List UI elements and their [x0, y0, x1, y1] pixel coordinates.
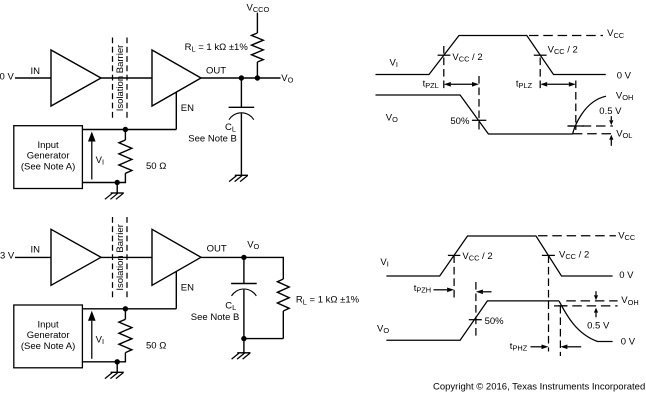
svg-text:(See Note A): (See Note A) — [21, 341, 75, 352]
svg-text:VCC​: VCC​ — [607, 28, 625, 40]
svg-text:0.5 V: 0.5 V — [587, 321, 610, 332]
wire generator bottom — [82, 182, 117, 184]
svg-text:VI​: VI​ — [96, 334, 104, 346]
svg-text:VO​: VO​ — [281, 73, 293, 85]
svg-text:RL​ = 1 kΩ ±1%: RL​ = 1 kΩ ±1% — [296, 295, 360, 307]
junction node EN/50ohm — [123, 127, 128, 132]
arrow tPZH left — [476, 290, 492, 295]
svg-text:EN: EN — [181, 283, 194, 294]
ground below generator — [105, 193, 124, 199]
junction ground node — [115, 359, 120, 364]
svg-text:50%: 50% — [485, 316, 505, 327]
wire EN pin — [175, 92, 177, 129]
svg-text:VI​: VI​ — [390, 58, 398, 70]
svg-text:tPZL​: tPZL​ — [423, 78, 439, 90]
buffer U1 input side — [51, 50, 101, 106]
svg-text:VCC​ / 2: VCC​ / 2 — [559, 249, 589, 261]
input generator box — [14, 126, 83, 189]
arrow tPLZ — [540, 82, 576, 87]
ground below CL — [229, 175, 248, 181]
tick VOL+0.5V crossing — [568, 125, 584, 127]
svg-text:50 Ω: 50 Ω — [146, 340, 166, 351]
svg-text:VCCO​: VCCO​ — [247, 2, 270, 14]
svg-text:VOH​: VOH​ — [616, 91, 633, 103]
capacitor CL — [229, 107, 255, 119]
svg-text:OUT: OUT — [206, 66, 226, 77]
wire 50ohm to ground node — [117, 173, 125, 182]
dashed marker tPHZ end — [559, 306, 561, 356]
dashed level VOH — [566, 300, 617, 302]
junction node CL — [239, 75, 244, 80]
arrow up 0.5V — [594, 308, 598, 318]
dashed level VOL+0.5V — [567, 125, 613, 127]
wire VCCO to RL — [256, 13, 258, 33]
svg-text:VCC​ / 2: VCC​ / 2 — [462, 251, 492, 263]
svg-text:See Note B: See Note B — [188, 133, 237, 144]
wire CL to bottom node — [243, 290, 245, 339]
wire input to buffer — [15, 77, 51, 79]
wire node to CL — [240, 78, 242, 107]
svg-text:RL​ = 1 kΩ ±1%: RL​ = 1 kΩ ±1% — [185, 42, 249, 54]
arrow down 0.5V — [594, 291, 598, 300]
wire generator to EN node — [82, 308, 176, 310]
waveform VI — [386, 236, 612, 276]
wire across barrier — [101, 77, 152, 79]
resistor 50 ohm — [119, 140, 132, 173]
svg-text:Generator: Generator — [27, 151, 70, 162]
svg-text:VOH​: VOH​ — [621, 295, 638, 307]
svg-text:0.5 V: 0.5 V — [599, 106, 622, 117]
wire bottom rail — [244, 338, 283, 340]
svg-text:IN: IN — [31, 245, 41, 256]
svg-text:3 V: 3 V — [0, 251, 15, 262]
wire to ground — [116, 183, 118, 194]
junction node RL — [255, 75, 260, 80]
VCC level dashed — [529, 35, 603, 37]
svg-text:0 V: 0 V — [621, 336, 636, 347]
junction bottom node — [241, 336, 246, 341]
dashed marker tPLZ start — [539, 58, 541, 89]
arrow tPZH right — [434, 288, 455, 293]
buffer U1 output side — [152, 50, 201, 106]
wire EN pin — [175, 272, 177, 309]
svg-text:VCC​ / 2: VCC​ / 2 — [452, 52, 482, 64]
svg-text:VOL​: VOL​ — [616, 129, 632, 141]
wire CL to ground — [240, 113, 242, 175]
arrow tPHZ left — [560, 345, 581, 350]
wire 50ohm to ground node — [117, 353, 125, 362]
waveform VO — [386, 301, 612, 342]
ground below generator — [105, 372, 124, 378]
svg-text:Generator: Generator — [27, 330, 70, 341]
svg-text:IN: IN — [31, 66, 41, 77]
wire across barrier — [101, 256, 152, 258]
input generator box — [14, 305, 83, 368]
wire RL to output node — [256, 62, 258, 78]
svg-text:VO​: VO​ — [247, 239, 259, 251]
svg-text:VO​: VO​ — [386, 113, 398, 125]
wire node to 50ohm — [124, 309, 126, 320]
tick 50% — [472, 119, 486, 121]
tick VCC/2 rising — [438, 54, 451, 56]
wire input to buffer — [15, 256, 51, 258]
wire generator to EN node — [82, 129, 176, 131]
dashed level VOL — [573, 133, 613, 135]
svg-text:VCC​: VCC​ — [618, 230, 636, 242]
svg-text:VCC​ / 2: VCC​ / 2 — [548, 44, 578, 56]
svg-text:CL​: CL​ — [225, 300, 236, 312]
waveform VO — [376, 95, 607, 134]
wire RL bottom — [282, 311, 284, 339]
waveform VI — [376, 36, 606, 75]
ground below CL/RL — [232, 353, 251, 359]
isolation barrier — [113, 217, 128, 297]
svg-text:0 V: 0 V — [619, 270, 634, 281]
buffer U2 input side — [51, 229, 101, 285]
wire to ground — [243, 339, 245, 353]
resistor 50 ohm — [119, 319, 132, 352]
isolation barrier — [113, 38, 128, 119]
svg-text:tPZH​: tPZH​ — [414, 283, 431, 295]
tick VCC/2 falling — [534, 54, 547, 56]
resistor RL 1k load — [277, 279, 289, 311]
svg-text:Input: Input — [38, 140, 59, 151]
svg-text:Copyright © 2016, Texas Instru: Copyright © 2016, Texas Instruments Inco… — [433, 381, 645, 392]
dashed marker tPZL end — [478, 76, 480, 130]
arrow up 0.5V — [609, 135, 613, 146]
wire to ground — [116, 362, 118, 373]
svg-text:See Note B: See Note B — [191, 312, 240, 323]
tick VOH-0.5V crossing — [554, 305, 567, 307]
wire OUT to RL — [201, 257, 283, 279]
VI reference arrow — [88, 132, 96, 180]
tick VCC/2 rising — [448, 254, 460, 256]
svg-text:50 Ω: 50 Ω — [146, 161, 166, 172]
svg-text:Input: Input — [38, 320, 59, 331]
svg-text:(See Note A): (See Note A) — [21, 162, 75, 173]
svg-text:EN: EN — [181, 103, 194, 114]
arrow tPHZ right — [531, 345, 549, 350]
wire node to 50ohm — [124, 130, 126, 141]
dashed marker tPZH end — [475, 282, 477, 338]
VCC level dashed — [538, 235, 616, 237]
resistor RL 1k pull-up — [252, 33, 264, 62]
wire OUT to VO — [201, 77, 281, 79]
dashed marker tPZL start — [443, 46, 445, 89]
tick VCC/2 falling — [542, 254, 555, 256]
svg-text:OUT: OUT — [207, 244, 227, 255]
junction node EN/50ohm — [123, 306, 128, 311]
capacitor CL — [231, 284, 257, 296]
svg-text:0 V: 0 V — [0, 72, 14, 83]
svg-text:50%: 50% — [450, 116, 470, 127]
buffer U2 output side — [152, 229, 201, 285]
dashed marker tPHZ start — [548, 255, 550, 351]
dashed marker tPZH start — [453, 255, 455, 300]
svg-text:CL​: CL​ — [225, 122, 236, 134]
svg-text:VI​: VI​ — [96, 155, 104, 167]
VI reference arrow — [88, 311, 96, 359]
svg-text:VO​: VO​ — [377, 323, 389, 335]
dashed level VOH-0.5V — [558, 305, 618, 307]
junction node VO — [241, 255, 246, 260]
dashed marker tPLZ end — [575, 81, 577, 131]
wire generator bottom — [82, 361, 117, 363]
svg-text:tPHZ​: tPHZ​ — [510, 341, 528, 353]
svg-text:VI​: VI​ — [380, 257, 388, 269]
tick 50% — [469, 319, 482, 321]
arrow tPZL — [444, 82, 479, 87]
wire node to CL — [243, 257, 245, 283]
svg-text:tPLZ​: tPLZ​ — [516, 78, 533, 90]
junction ground node — [115, 180, 120, 185]
arrow down 0.5V — [609, 116, 613, 125]
svg-text:0 V: 0 V — [617, 70, 632, 81]
